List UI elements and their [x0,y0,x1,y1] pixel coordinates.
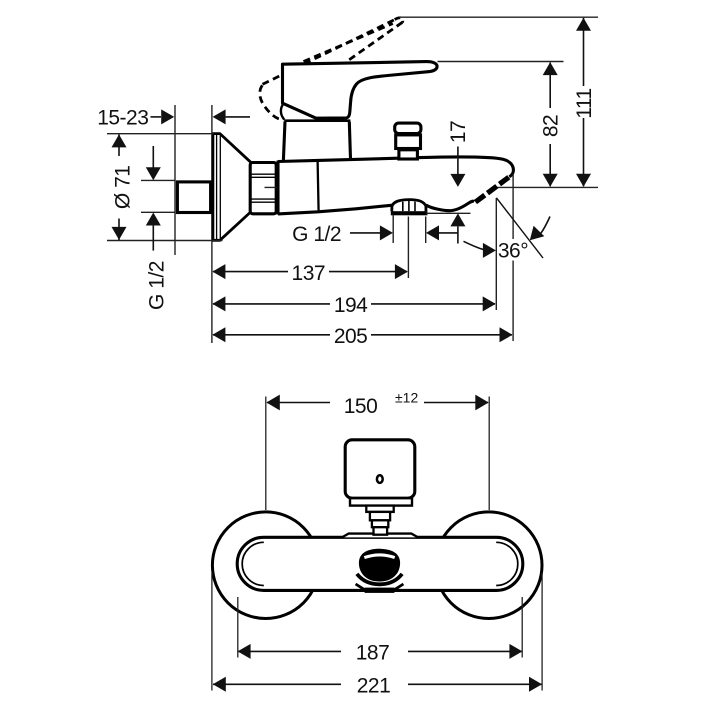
dimension 111 down arrow [576,174,591,187]
dimension 221 right extension line [541,573,543,691]
union nut [250,163,276,214]
svg-text:G 1/2: G 1/2 [146,261,169,310]
outlet center extension line [495,198,497,310]
neck step 1 [366,506,393,512]
cartridge dome arc [281,103,284,119]
dimension 150 right extension line [488,397,490,511]
angle 36 left leader arc [464,241,485,249]
spout top outline [278,157,513,177]
dimension 17 up arrow [450,213,465,226]
dimension 187 line right [408,650,522,652]
escutcheon rim inner line [216,134,218,240]
neck step 4 [374,527,388,535]
dimension 111 line lower [583,118,585,186]
dimension 82 up arrow [543,62,558,75]
aerator bump inner line 2 [408,201,410,211]
dimension 221 left extension line [211,573,213,691]
dimension 194 left arrow [212,296,225,311]
dimension 15-23 right tail line [226,116,250,118]
dimension 15-23 left-pointing arrow [213,109,226,124]
dimension 150 line left [267,402,330,404]
dimension 205 left arrow [212,327,225,342]
dimension 205 line left [213,334,330,336]
diverter knob cap [395,123,421,133]
dimension G12 left line upper [152,146,154,168]
dimension G12 outlet leader line [350,232,380,234]
dimension G12 outlet left extension line [392,215,394,244]
dimension 221 left arrow [213,677,226,692]
dimension G12 outlet right-pointing arrow [380,225,393,240]
svg-text:Ø 71: Ø 71 [112,166,135,210]
capsule right inner arc [496,542,518,585]
dimension G12 left down arrow [146,167,161,180]
nut flat line b [252,176,276,178]
dimension 194 right arrow [483,296,496,311]
dimension 187 line left [238,650,341,652]
open-position lever upper dashed edge [263,20,395,85]
dimension 82 down arrow [543,174,558,187]
aerator bump dome [392,200,426,212]
dimension 82 line lower [549,144,551,186]
aerator bump base bar [391,211,428,215]
capsule left inner arc [242,542,264,585]
dimension D71 bottom extension line [107,240,223,242]
dimension 150 line right [424,402,488,404]
dimension 187 right extension line [521,597,523,658]
dimension 194 line left [213,303,330,305]
dimension 150 left arrow [266,395,279,411]
diverter knob neck [399,150,418,159]
dimension 187 left arrow [238,644,251,659]
dimension 187 left extension line [237,597,239,658]
dimension 82 extension line [438,61,564,63]
aerator bump inner line 1 [402,202,404,212]
body capsule [237,537,523,590]
diverter knob ring [396,135,421,149]
dimension 17 line lower [457,226,459,243]
open-position lever inner dashed edge [304,24,393,62]
dimension 187 right arrow [509,644,522,659]
handle receiver box [345,440,415,498]
lever handle [283,62,438,119]
angle 36 text halo [499,239,528,261]
cartridge housing left edge [283,122,285,161]
svg-text:187: 187 [356,642,390,665]
dimension 15-23 leader line [151,116,162,118]
escutcheon cone joint line [219,134,221,240]
dimension D71 top extension line [107,133,214,135]
left escutcheon circle [212,512,319,619]
angle 36 slanted line [496,198,543,258]
dimension 17 down arrow [450,174,465,187]
open-position lever tip dashed arc [395,18,403,23]
dimension 205 right arrow [500,327,513,342]
dimension 137 line left [213,271,288,273]
front outlet left wing [356,584,365,590]
svg-text:82: 82 [540,115,563,137]
body joint line [318,161,319,212]
centerline of connection [265,186,599,188]
svg-text:205: 205 [334,325,368,348]
dimension 150 right arrow [475,395,488,411]
dimension D71 up arrow [112,134,127,147]
svg-text:17: 17 [447,121,470,143]
nut flat line c [252,198,276,200]
dimension 221 line right [408,683,542,685]
open-position lever lower dashed edge [346,22,402,62]
spout bottom outline right [426,201,474,210]
angle 36 right leader arc [541,217,551,234]
aerator bump inner line 3 [414,202,416,212]
dimension 194 line right [371,303,495,305]
dimension 111 up arrow [576,18,591,31]
handle skirt line [284,119,350,122]
right escutcheon circle [435,512,542,619]
receiver collar [350,498,412,505]
svg-text:G 1/2: G 1/2 [292,223,341,246]
dimension 17 lower tick line [426,212,471,214]
dimension 137 left arrow [212,264,225,279]
open-position lever rear dashed arc [260,85,283,120]
faucet body fill [278,157,513,214]
cartridge housing right edge [349,122,350,160]
svg-text:221: 221 [357,675,391,698]
capsule top shoulders [342,534,418,538]
svg-text:150: 150 [344,395,378,418]
dimension G12 left line lower [152,226,154,251]
nut flat line d [252,201,276,203]
dimension 137 line right [329,271,407,273]
dimension 15-23 right-pointing arrow [161,109,174,124]
body left edge [276,161,279,215]
spout tip extension line [512,174,514,341]
front outlet right wing [395,584,404,590]
dimension G12 outlet left-pointing arrow [426,225,439,240]
dimension 111 extension line [399,16,598,18]
outlet aerator face strip [475,177,509,203]
nut flat line a [252,173,276,175]
svg-text:137: 137 [292,262,326,285]
dimension 111 line upper [583,18,585,86]
svg-text:15-23: 15-23 [97,106,148,129]
escutcheon face extension line [211,105,213,343]
svg-text:36°: 36° [498,239,528,262]
temperature stop dot [377,475,383,483]
dimension D71 down arrow [112,227,127,240]
wall escutcheon cone [213,134,251,241]
dimension G12 outlet right tail line [439,232,458,234]
angle 36 down-left arc arrow [530,226,545,241]
dimension G12 left up arrow [146,213,161,226]
neck step 3 [372,520,388,527]
dimension 205 line right [371,334,512,336]
dimension G12 left tick top [141,179,175,181]
front outlet smile arc [357,574,402,584]
dimension G12 outlet right extension line [425,217,427,244]
pipe stub rectangle [177,182,210,213]
dimension 150 left extension line [265,397,267,511]
front outlet highlight [364,555,394,558]
svg-text:111: 111 [573,88,596,118]
wall surface line [174,105,176,255]
dimension D71 line [118,134,120,156]
spout bottom outline left [278,205,393,214]
svg-text:194: 194 [334,294,368,317]
front outlet blob [359,549,400,582]
aerator center extension line [407,217,409,279]
dimension 82 line upper [549,63,551,109]
neck step 2 [370,512,390,520]
dimension G12 left tick bottom [141,211,175,213]
dimension 137 right arrow [395,264,408,279]
dimension 17 line upper [457,147,459,175]
angle 36 right-pointing arc arrow [483,243,496,258]
svg-text:±12: ±12 [395,390,418,406]
nut centerline segment [265,186,321,188]
dimension 221 right arrow [529,677,542,692]
dimension 221 line left [213,683,341,685]
front outlet bar [365,588,395,593]
